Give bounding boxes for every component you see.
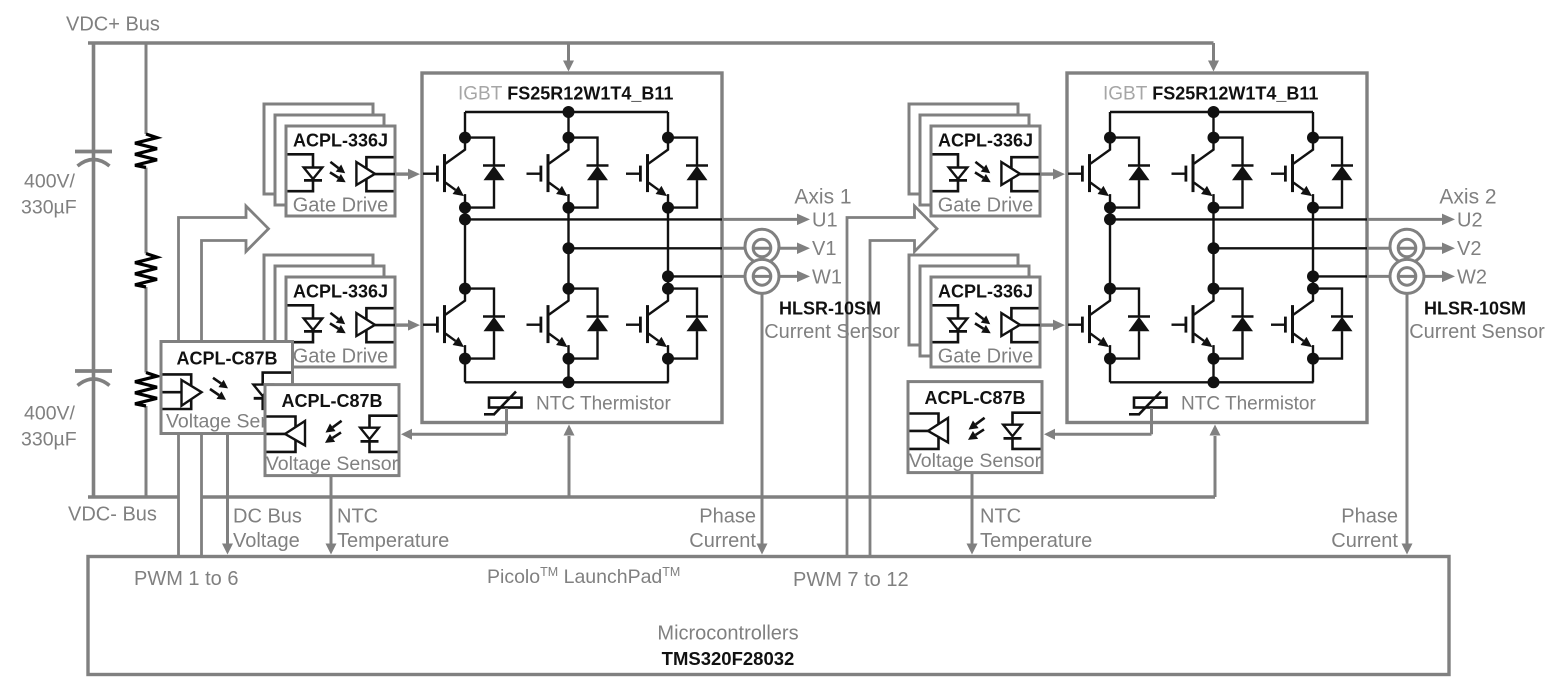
light arrows [975,313,983,319]
wire leg 2 from rail [567,112,569,138]
wire NTC temperature sense 2 [971,473,974,544]
wire leg 1 midpoint [1109,208,1111,289]
wire phase W1 (gray) [722,275,798,278]
emitter node dot Q8 [1208,202,1220,214]
voltage sensor U10 ACPL-C87B (DC bus) [161,342,293,434]
collector node dot Q9 [1307,132,1319,144]
svg-text:ACPL-C87B: ACPL-C87B [924,388,1025,408]
microcontroller box TMS320F28032 [88,557,1449,675]
wire phase V1 (gray) [722,247,798,250]
IGBT module box (FS25R12W1T4_B11) #2 [1067,73,1367,423]
light arrows [976,418,985,424]
phase node dot leg 1 [459,213,471,225]
svg-text:PicoloTM LaunchPadTM: PicoloTM LaunchPadTM [487,565,680,588]
wire leg 1 to DC- rail [464,359,466,383]
gate drive stack 3 back card [909,104,1018,194]
current sensor circles (HLSR-10SM) #2 upper [1390,229,1424,263]
svg-text:U2: U2 [1457,210,1483,232]
wire gate drive 3 output arrow [1040,172,1054,175]
wire gate drive 4 output arrow [1040,323,1054,326]
svg-text:VDC+ Bus: VDC+ Bus [66,14,160,36]
light arrows [975,162,983,168]
wire leg 1 to DC- rail [1109,359,1111,383]
gate drive stack 4 middle card [920,266,1029,356]
wire VDC+ bus [88,41,1214,44]
voltage sensor U11 ACPL-C87B (axis 1 NTC) [265,385,399,476]
gate drive stack 1 back card [264,104,373,194]
wire VDC+ drop to module 2 [1212,43,1215,62]
collector node dot Q12 [1307,283,1319,295]
collector node dot Q7 [1104,132,1116,144]
emitter node dot Q2 [563,202,575,214]
diode D7 (freewheeling) [1110,138,1139,208]
gate drive stack 1 middle card [275,115,384,205]
LED (optocoupler input) [288,305,314,342]
svg-text:Gate Drive: Gate Drive [938,195,1034,217]
transistor Q8 (IGBT) [1194,138,1214,164]
wire DC+ rail inside module [1110,111,1313,113]
resistor R1 [135,134,157,168]
wire phase V (black) [1214,247,1368,249]
svg-text:U1: U1 [812,210,838,232]
output buffer amplifier [366,308,393,342]
input amplifier (points right) [163,374,192,409]
node dot DC- rail [1208,376,1220,388]
diode D11 (freewheeling) [1214,289,1243,359]
wire phase U (black) [1110,218,1367,220]
transistor Q12 (IGBT) [1294,289,1314,315]
diode D5 (freewheeling) [569,289,598,359]
emitter node dot Q3 [662,202,674,214]
emitter node dot Q4 [459,353,471,365]
LED (optocoupler input) [933,154,959,191]
diode D12 (freewheeling) [1313,289,1342,359]
output buffer amplifier [1011,308,1038,342]
svg-text:Phase: Phase [699,506,756,528]
svg-text:TMS320F28032: TMS320F28032 [662,648,795,669]
svg-text:Temperature: Temperature [980,530,1092,552]
svg-text:Current Sensor: Current Sensor [764,321,900,343]
emitter node dot Q7 [1104,202,1116,214]
wire leg 3 from rail [1312,112,1314,138]
phase node dot leg 3 [1307,270,1319,282]
transistor Q7 (IGBT) [1091,138,1111,164]
wire phase V (black) [569,247,723,249]
light arrows [330,162,338,168]
gate drive stack 4 back card [909,255,1018,345]
svg-text:Current: Current [689,530,756,552]
wire DC bus voltage sense [226,434,229,545]
capacitor C2 [75,369,112,373]
svg-text:Temperature: Temperature [337,530,449,552]
wire leg 3 to DC- rail [667,359,669,383]
LED (optocoupler input) [288,154,314,191]
wire gate drive 1 output arrow [395,172,409,175]
wire DC- rail inside module [1110,381,1314,383]
wire phase U1 (gray) [722,218,798,221]
PWM 1-6 block arrow (from microcontroller to axis-1 gate drives) [179,206,269,557]
svg-text:Axis 2: Axis 2 [1439,186,1496,209]
svg-text:IGBT FS25R12W1T4_B11: IGBT FS25R12W1T4_B11 [458,84,673,105]
svg-text:ACPL-C87B: ACPL-C87B [176,349,277,369]
gate drive U4 ACPL-336J card [931,277,1040,367]
wire leg 2 from rail [1212,112,1214,138]
svg-text:W2: W2 [1457,267,1487,289]
wire phase current sense 2 [1406,293,1409,545]
transistor Q9 (IGBT) [1294,138,1314,164]
wire leg 2 to DC- rail [1212,359,1214,383]
collector node dot Q8 [1208,132,1220,144]
svg-text:PWM 7 to 12: PWM 7 to 12 [793,569,909,591]
transistor Q5 (IGBT) [549,289,569,315]
svg-text:DC Bus: DC Bus [233,506,302,528]
PWM 7-12 block arrow (from microcontroller to axis-2 gate drives) [847,206,937,557]
output buffer amplifier [1011,157,1038,191]
svg-text:Current: Current [1331,530,1398,552]
output buffer amplifier [366,157,393,191]
wire DC- rail inside module [465,381,669,383]
wire leg 1 midpoint [464,208,466,289]
svg-text:Current Sensor: Current Sensor [1409,321,1545,343]
svg-text:W1: W1 [812,267,842,289]
wire leg 3 from rail [667,112,669,138]
diode D9 (freewheeling) [1313,138,1342,208]
svg-text:Voltage: Voltage [233,530,300,552]
svg-text:400V/: 400V/ [24,171,76,193]
collector node dot Q2 [563,132,575,144]
NTC thermistor RT1 [489,398,522,408]
svg-text:NTC Thermistor: NTC Thermistor [1181,394,1316,415]
node dot DC- rail [563,376,575,388]
diode D2 (freewheeling) [569,138,598,208]
wire leg 1 from rail [1109,112,1111,138]
phase node dot leg 1 [1104,213,1116,225]
wire gate drive 2 output arrow [395,323,409,326]
collector node dot Q5 [563,283,575,295]
diode D1 (freewheeling) [465,138,494,208]
wire leg 3 midpoint [667,208,669,289]
collector node dot Q6 [662,283,674,295]
svg-text:IGBT FS25R12W1T4_B11: IGBT FS25R12W1T4_B11 [1103,84,1318,105]
node dot DC+ rail [1208,106,1220,118]
gate drive U3 ACPL-336J card [931,126,1040,216]
collector node dot Q3 [662,132,674,144]
collector node dot Q10 [1104,283,1116,295]
input amplifier (points left) [910,414,939,449]
diode D8 (freewheeling) [1214,138,1243,208]
light arrows [213,378,221,384]
gate drive stack 3 middle card [920,115,1029,205]
gate drive U1 ACPL-336J card [286,126,395,216]
diode D6 (freewheeling) [668,289,697,359]
emitter node dot Q9 [1307,202,1319,214]
svg-text:Axis 1: Axis 1 [794,186,851,209]
phase node dot leg 3 [662,270,674,282]
wire leg 2 midpoint [1212,208,1214,289]
emitter node dot Q5 [563,353,575,365]
transistor Q1 (IGBT) [446,138,466,164]
transistor Q10 (IGBT) [1091,289,1111,315]
svg-text:NTC: NTC [980,506,1021,528]
collector node dot Q1 [459,132,471,144]
emitter node dot Q12 [1307,353,1319,365]
wire phase U2 (gray) [1367,218,1443,221]
node dot DC+ rail [563,106,575,118]
current sensor circles (HLSR-10SM) #1 lower [745,259,779,293]
current sensor circles (HLSR-10SM) #1 upper [745,229,779,263]
wire VDC- bus [88,495,1215,498]
svg-text:Voltage Sensor: Voltage Sensor [909,450,1042,472]
wire capacitor rail [92,43,96,497]
current sensor circles (HLSR-10SM) #2 lower [1390,259,1424,293]
phase node dot leg 2 [1208,242,1220,254]
svg-text:400V/: 400V/ [24,403,76,425]
wire VDC+ drop to module 1 [567,43,570,62]
collector node dot Q11 [1208,283,1220,295]
svg-text:Gate Drive: Gate Drive [293,195,389,217]
svg-text:330µF: 330µF [21,197,77,219]
transistor Q4 (IGBT) [446,289,466,315]
wire leg 1 from rail [464,112,466,138]
wire DC+ rail inside module [465,111,668,113]
svg-text:ACPL-C87B: ACPL-C87B [281,391,382,411]
wire leg 3 to DC- rail [1312,359,1314,383]
collector node dot Q4 [459,283,471,295]
resistor R2 [135,254,157,288]
wire phase W (black) [668,275,722,277]
svg-text:HLSR-10SM: HLSR-10SM [779,299,881,319]
svg-text:Gate Drive: Gate Drive [293,346,389,368]
light arrows [330,313,338,319]
wire resistor rail [145,43,148,134]
wire leg 3 midpoint [1312,208,1314,289]
IGBT module box (FS25R12W1T4_B11) #1 [422,73,722,423]
wire phase V2 (gray) [1367,247,1443,250]
wire NTC temperature sense 1 [330,476,333,544]
svg-text:ACPL-336J: ACPL-336J [293,282,388,302]
svg-text:V1: V1 [812,238,836,260]
transistor Q11 (IGBT) [1194,289,1214,315]
wire leg 2 to DC- rail [567,359,569,383]
wire phase W2 (gray) [1367,275,1443,278]
phase node dot leg 2 [563,242,575,254]
resistor R3 [135,373,157,407]
svg-text:ACPL-336J: ACPL-336J [293,131,388,151]
svg-text:ACPL-336J: ACPL-336J [938,131,1033,151]
wire phase U (black) [465,218,722,220]
emitter node dot Q1 [459,202,471,214]
svg-text:V2: V2 [1457,238,1481,260]
svg-text:PWM 1 to 6: PWM 1 to 6 [134,568,238,590]
emitter node dot Q11 [1208,353,1220,365]
svg-text:Gate Drive: Gate Drive [938,346,1034,368]
wire VDC- rise to module 2 [1214,436,1217,497]
gate drive stack 2 back card [264,255,373,345]
capacitor C1 [75,150,112,154]
svg-text:HLSR-10SM: HLSR-10SM [1424,299,1526,319]
transistor Q3 (IGBT) [649,138,669,164]
diode D3 (freewheeling) [668,138,697,208]
transistor Q2 (IGBT) [549,138,569,164]
LED (optocoupler) [263,373,291,409]
svg-text:Microcontrollers: Microcontrollers [657,623,798,645]
wire VDC- rise to module 1 [568,436,571,497]
emitter node dot Q6 [662,353,674,365]
LED (optocoupler) [1013,413,1041,449]
wire leg 2 midpoint [567,208,569,289]
svg-text:Voltage Sensor: Voltage Sensor [266,453,399,475]
voltage sensor U12 ACPL-C87B (axis 2 NTC) [908,382,1042,473]
svg-text:NTC: NTC [337,506,378,528]
wire phase W (black) [1313,275,1367,277]
diode D4 (freewheeling) [465,289,494,359]
wire NTC 2 to voltage sensor [1150,408,1153,434]
svg-text:330µF: 330µF [21,429,77,451]
emitter node dot Q10 [1104,353,1116,365]
gate drive stack 2 middle card [275,266,384,356]
input amplifier (points left) [267,417,296,452]
wire NTC 1 to voltage sensor [505,408,508,434]
transistor Q6 (IGBT) [649,289,669,315]
gate drive U2 ACPL-336J card [286,277,395,367]
svg-text:VDC- Bus: VDC- Bus [68,504,157,526]
LED (optocoupler input) [933,305,959,342]
svg-text:NTC Thermistor: NTC Thermistor [536,394,671,415]
wire phase current sense 1 [761,293,764,545]
diode D10 (freewheeling) [1110,289,1139,359]
light arrows [333,421,342,427]
svg-text:Phase: Phase [1341,506,1398,528]
svg-text:ACPL-336J: ACPL-336J [938,282,1033,302]
LED (optocoupler) [370,416,398,452]
NTC thermistor RT2 [1134,398,1167,408]
